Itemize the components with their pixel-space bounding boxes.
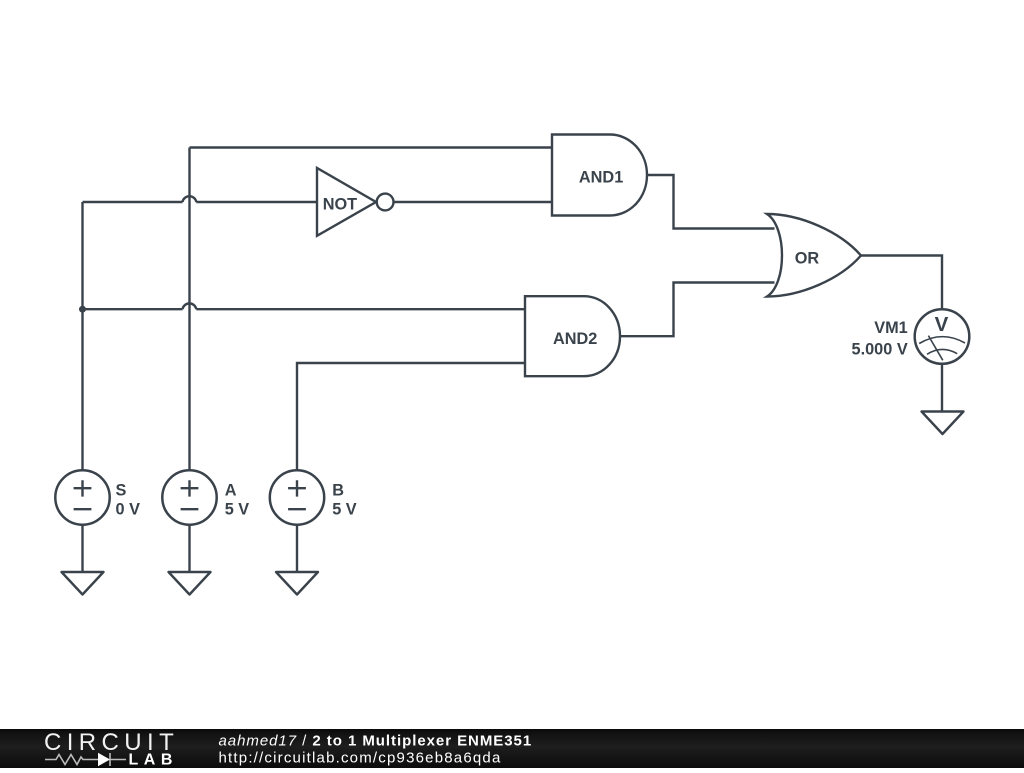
wire S vertical junction to source (81, 309, 83, 470)
wire NOT output to AND1 bottom input (394, 201, 553, 203)
svg-text:V: V (935, 313, 949, 336)
ground symbol under voltmeter (922, 412, 964, 435)
wire voltmeter to ground (941, 364, 943, 411)
AND gate AND2 body (525, 296, 620, 376)
wire AND2 output to OR bottom input (620, 283, 775, 337)
OR gate body (767, 214, 861, 297)
wire S horizontal to NOT input with hop (83, 201, 318, 203)
wire OR output to voltmeter (861, 256, 942, 310)
source S plus sign (74, 480, 92, 496)
source S minus sign (74, 508, 92, 510)
svg-text:S: S (116, 482, 127, 500)
source A plus sign (181, 480, 199, 496)
voltmeter needle (928, 336, 942, 361)
wire S vertical from corner to junction (81, 202, 83, 309)
wire hop over A at y201.5 (183, 196, 197, 202)
svg-text:LAB: LAB (129, 752, 178, 769)
wire hop over A at y309 (183, 303, 197, 309)
wire B source to ground (296, 525, 298, 572)
svg-text:5.000 V: 5.000 V (852, 340, 908, 358)
source B minus sign (288, 508, 306, 510)
wire AND1 output to OR top input (647, 175, 775, 229)
svg-text:5 V: 5 V (332, 500, 357, 518)
voltmeter VM1 circle (915, 309, 970, 364)
svg-text:B: B (332, 482, 344, 500)
svg-text:0 V: 0 V (116, 500, 141, 518)
ground symbol under B (276, 572, 318, 595)
svg-text:aahmed17 / 2 to 1 Multiplexer: aahmed17 / 2 to 1 Multiplexer ENME351 (219, 733, 533, 750)
voltage source S circle (55, 470, 109, 524)
ground symbol under S (62, 572, 104, 595)
wire B vertical and horizontal to AND2 bottom input (297, 363, 525, 470)
svg-text:A: A (225, 482, 237, 500)
NOT gate U1 triangle and bubble (317, 168, 376, 236)
svg-text:NOT: NOT (323, 195, 357, 213)
voltage source A circle (162, 470, 216, 524)
svg-text:AND1: AND1 (579, 169, 623, 187)
voltmeter gauge arc 2 (927, 349, 957, 354)
wire A source to ground (188, 525, 190, 572)
logo resistor and diode glyph (45, 753, 126, 766)
svg-text:VM1: VM1 (874, 319, 907, 337)
wire S source to ground (81, 525, 83, 572)
AND gate AND1 body (552, 135, 647, 216)
wire A vertical (188, 148, 190, 471)
junction node at S net (79, 306, 86, 313)
svg-text:AND2: AND2 (553, 330, 597, 348)
voltage source B circle (270, 470, 324, 524)
source B plus sign (288, 480, 306, 496)
source A minus sign (181, 508, 199, 510)
svg-text:5 V: 5 V (225, 500, 250, 518)
voltmeter gauge arc 1 (919, 337, 965, 344)
ground symbol under A (169, 572, 211, 595)
svg-text:OR: OR (795, 249, 820, 267)
wire A horizontal to AND1 top input (190, 146, 553, 148)
svg-text:http://circuitlab.com/cp936eb8: http://circuitlab.com/cp936eb8a6qda (219, 750, 502, 767)
wire S horizontal to AND2 input with hop (83, 308, 526, 310)
